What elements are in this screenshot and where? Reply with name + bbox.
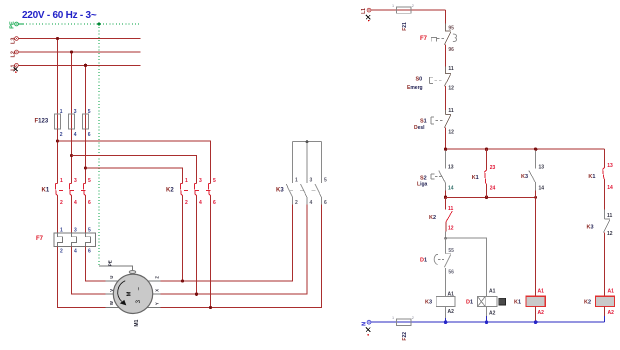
svg-text:K3: K3 (521, 174, 528, 180)
svg-text:3: 3 (74, 178, 77, 184)
svg-text:S0: S0 (416, 76, 423, 82)
wire rail L3 (18, 38, 140, 40)
node K2-motor junction 1 (181, 279, 184, 282)
svg-text:F21: F21 (402, 22, 408, 31)
node rail C (534, 148, 537, 151)
svg-text:24: 24 (490, 186, 496, 192)
svg-text:1: 1 (60, 109, 63, 115)
svg-text:5: 5 (88, 227, 91, 233)
svg-text:A2: A2 (489, 310, 496, 316)
svg-text:1: 1 (185, 178, 188, 184)
svg-text:1: 1 (392, 316, 394, 320)
svg-text:4: 4 (199, 200, 202, 206)
svg-text:11: 11 (448, 66, 454, 72)
motor stubs right (133, 281, 161, 308)
svg-text:PE: PE (107, 260, 112, 266)
node second rail C (534, 196, 537, 199)
svg-text:12: 12 (607, 231, 613, 237)
svg-text:U: U (109, 276, 114, 279)
fuse F22 (397, 319, 412, 325)
node neutral B (485, 320, 489, 324)
wire phase drop 2 (71, 52, 73, 114)
svg-text:L2: L2 (11, 51, 17, 57)
wire K1 to F7 (58, 196, 86, 233)
motor PE wire (99, 266, 133, 271)
wire phase drop 1 (57, 39, 59, 115)
svg-text:Z: Z (154, 276, 159, 279)
source marker x control top (366, 15, 370, 19)
wire rail L2 (18, 51, 140, 53)
wire motor right row2 (161, 205, 308, 295)
wire neutral line (371, 321, 605, 323)
svg-text:S2: S2 (420, 175, 427, 181)
svg-text:X: X (154, 289, 159, 292)
node second rail B (485, 196, 488, 199)
svg-text:K3: K3 (276, 188, 284, 194)
wire PE drop (green dashed vertical) (98, 24, 100, 266)
node K2-motor junction 2 (195, 293, 198, 296)
wire to K3 NC (604, 180, 606, 210)
wire S1 to rail (445, 128, 447, 150)
svg-text:F7: F7 (36, 236, 44, 242)
svg-text:K2: K2 (429, 215, 436, 221)
wire F7 to motor terminals (86, 247, 106, 282)
svg-text:L1: L1 (361, 8, 367, 14)
svg-text:K3: K3 (587, 225, 594, 231)
wire motor right row3 (161, 205, 322, 308)
svg-text:5: 5 (88, 109, 91, 115)
wire motor right row1 (161, 205, 293, 281)
svg-text:13: 13 (448, 164, 454, 170)
svg-text:12: 12 (448, 130, 454, 136)
wire control rail (446, 148, 605, 150)
svg-text:5: 5 (88, 178, 91, 184)
node PE terminal (15, 22, 19, 26)
svg-text:2: 2 (60, 200, 63, 206)
svg-text:14: 14 (448, 185, 454, 191)
svg-text:6: 6 (213, 200, 216, 206)
svg-text:5: 5 (213, 178, 216, 184)
svg-text:56: 56 (448, 270, 454, 276)
svg-text:11: 11 (607, 213, 613, 219)
svg-text:4: 4 (310, 200, 313, 206)
svg-text:Emerg: Emerg (407, 85, 423, 91)
node rail A (444, 148, 447, 151)
svg-text:2: 2 (60, 132, 63, 138)
svg-text:D1: D1 (466, 300, 473, 306)
motor M1 (113, 274, 152, 313)
svg-text:6: 6 (88, 132, 91, 138)
svg-text:4: 4 (74, 132, 77, 138)
svg-text:5: 5 (324, 178, 327, 184)
node L2 terminal (15, 50, 19, 54)
svg-text:Y: Y (154, 302, 159, 305)
node L3 terminal (15, 37, 19, 41)
svg-text:2: 2 (185, 200, 188, 206)
svg-text:1: 1 (60, 178, 63, 184)
wire K2 pole drops (183, 196, 211, 308)
source marker x control bottom (366, 328, 370, 332)
svg-text:2: 2 (60, 249, 63, 255)
node PE junction (97, 22, 100, 25)
svg-text:A1: A1 (489, 289, 496, 295)
wire branch to K2 pole2 (72, 156, 197, 184)
wire F7 to S0 (445, 44, 447, 66)
svg-text:2: 2 (412, 4, 414, 8)
svg-text:13: 13 (539, 164, 545, 170)
svg-text:M1: M1 (134, 319, 140, 326)
node K2-motor junction 3 (209, 306, 212, 309)
node branch junction 1 (56, 139, 59, 142)
svg-text:14: 14 (539, 185, 545, 191)
svg-text:55: 55 (448, 248, 454, 254)
svg-text:14: 14 (607, 185, 613, 191)
svg-text:W: W (109, 301, 114, 305)
svg-text:D1: D1 (420, 258, 427, 264)
wire terminal to F21 (371, 9, 446, 11)
svg-text:A2: A2 (538, 310, 545, 316)
svg-text:M: M (127, 291, 133, 296)
svg-text:Desl: Desl (414, 125, 425, 131)
svg-text:V: V (109, 289, 114, 292)
wire to D1 coil branch (446, 238, 487, 296)
svg-text:13: 13 (607, 163, 613, 169)
svg-text:6: 6 (324, 200, 327, 206)
node star bridge junction (306, 140, 309, 143)
svg-text:A2: A2 (608, 310, 615, 316)
wire fuse outputs down to K1 (58, 129, 86, 183)
node neutral A (444, 320, 448, 324)
wire K3 coil to neutral (445, 307, 447, 319)
wire S2 to node (445, 191, 447, 198)
wire K1 coil to neutral (535, 307, 537, 322)
wire branch to K2 pole3 (58, 141, 211, 183)
motor stubs left (106, 281, 134, 308)
node N terminal (367, 320, 371, 324)
svg-text:Liga: Liga (417, 182, 428, 188)
svg-text:K3: K3 (425, 299, 432, 305)
svg-text:~: ~ (136, 287, 142, 291)
node L1 terminal (15, 63, 19, 67)
svg-text:11: 11 (448, 206, 454, 212)
svg-text:3: 3 (74, 227, 77, 233)
node neutral C (534, 320, 538, 324)
svg-text:A1: A1 (538, 289, 545, 295)
svg-text:11: 11 (448, 108, 454, 114)
node L1 control terminal (367, 8, 371, 12)
svg-text:12: 12 (448, 86, 454, 92)
source marker x L1 (14, 67, 18, 71)
svg-text:12: 12 (448, 226, 454, 232)
svg-text:3: 3 (199, 178, 202, 184)
svg-text:K2: K2 (166, 188, 174, 194)
wire D1 coil to neutral (486, 307, 488, 317)
wire K3aux to second rail (535, 191, 537, 198)
wire rail L1 (18, 64, 140, 66)
wire S0 to S1 (445, 86, 447, 114)
svg-text:K1: K1 (514, 299, 521, 305)
svg-text:95: 95 (448, 25, 454, 31)
svg-text:L3: L3 (11, 38, 17, 44)
svg-text:3: 3 (74, 109, 77, 115)
wire K3 NC to K2 coil (604, 233, 606, 297)
svg-text:A1: A1 (608, 289, 615, 295)
svg-text:1: 1 (60, 227, 63, 233)
svg-text:3: 3 (310, 178, 313, 184)
wire rail corner down right column (604, 149, 606, 162)
svg-text:F123: F123 (35, 119, 49, 125)
svg-text:F22: F22 (402, 332, 408, 341)
svg-text:F7: F7 (420, 36, 428, 42)
svg-text:4: 4 (74, 200, 77, 206)
svg-text:2: 2 (412, 316, 414, 320)
svg-text:4: 4 (74, 249, 77, 255)
node branch junction 3 (84, 166, 87, 169)
svg-text:6: 6 (88, 249, 91, 255)
fuse F21 (397, 7, 412, 13)
svg-text:K1: K1 (42, 188, 50, 194)
wire second rail (446, 196, 536, 198)
svg-text:N: N (362, 322, 368, 326)
svg-text:A2: A2 (448, 309, 455, 315)
node branch junction 2 (70, 154, 73, 157)
svg-text:23: 23 (490, 165, 496, 171)
wire phase drop 3 (85, 65, 87, 114)
svg-text:PE: PE (9, 21, 15, 29)
svg-text:96: 96 (448, 47, 454, 53)
svg-text:220V - 60 Hz - 3~: 220V - 60 Hz - 3~ (22, 10, 97, 21)
svg-text:1: 1 (392, 4, 394, 8)
wire K3 star bridge (293, 142, 322, 183)
svg-text:K1: K1 (472, 175, 479, 181)
node D1 branch junction (444, 237, 447, 240)
wire branch to K2 pole1 (86, 168, 183, 183)
wire down to F7 (445, 10, 447, 24)
wire K1 coil column (535, 197, 537, 296)
svg-text:K1: K1 (588, 174, 595, 180)
svg-text:1: 1 (295, 178, 298, 184)
svg-text:A1: A1 (448, 291, 455, 297)
node rail B (485, 148, 488, 151)
wire K2 coil to neutral corner (604, 307, 606, 317)
svg-text:S1: S1 (420, 119, 427, 125)
svg-text:K2: K2 (584, 299, 591, 305)
wire PE bus (green dashed) (18, 23, 23, 25)
svg-text:2: 2 (295, 200, 298, 206)
svg-text:6: 6 (88, 200, 91, 206)
wire D1 contact to K3 coil (445, 268, 447, 297)
node second rail A (444, 196, 447, 199)
